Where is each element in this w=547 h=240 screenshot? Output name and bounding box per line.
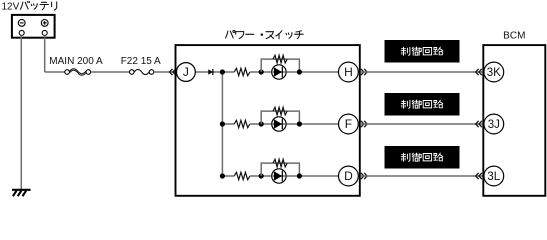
BCM box [483, 45, 545, 196]
junction dot [220, 173, 225, 178]
terminal H [339, 62, 359, 82]
terminal D [339, 166, 359, 186]
diode D2 (circled) [272, 65, 286, 79]
junction dot [220, 69, 225, 74]
resistor R4 (parallel) [273, 107, 287, 115]
svg-text:12V: 12V [2, 1, 20, 12]
resistor R1 [234, 68, 250, 75]
wire to BCM [361, 123, 484, 125]
resistor R5 [234, 172, 250, 179]
control circuit block 3 (制御回路) [385, 146, 460, 169]
svg-text:F: F [345, 117, 352, 131]
wire parallel branch [261, 59, 299, 72]
connector chevrons at BCM [476, 69, 482, 75]
control circuit block 1 (制御回路) [385, 40, 460, 63]
node junction dot [297, 121, 302, 126]
terminal F [339, 114, 359, 134]
wire battery negative to ground [20, 36, 22, 190]
node junction dot [259, 121, 264, 126]
fuse F22 15A [130, 69, 154, 74]
wire to BCM [361, 71, 484, 73]
fusible link MAIN 200A [65, 69, 91, 76]
connector chevrons out [361, 121, 367, 127]
svg-text:J: J [183, 65, 189, 79]
power switch box [176, 45, 360, 196]
ground [12, 190, 31, 196]
svg-text:H: H [344, 65, 353, 79]
label power switch (パワー・スイッチ) [226, 30, 304, 38]
diode D4 (circled) [272, 169, 286, 183]
battery 12V [12, 15, 55, 38]
svg-text:BCM: BCM [503, 30, 525, 41]
wire J to junction [195, 71, 234, 73]
wire through diode [272, 71, 339, 73]
node junction dot [259, 173, 264, 178]
diode D3 (circled) [272, 117, 286, 131]
terminal J [177, 63, 196, 82]
resistor R3 [234, 120, 250, 127]
connector chevrons out [361, 173, 367, 179]
wire branch to row F [222, 123, 234, 125]
wire parallel branch [261, 111, 299, 124]
terminal 3K [484, 62, 504, 82]
wire between fuses [91, 71, 130, 73]
svg-text:3J: 3J [488, 119, 500, 131]
diode D1 (inline) [208, 69, 213, 75]
junction dot [220, 121, 225, 126]
wire battery positive [45, 36, 65, 73]
node junction dot [297, 173, 302, 178]
svg-text:MAIN 200 A: MAIN 200 A [49, 56, 103, 67]
wire fuse to power switch connector [154, 71, 177, 73]
connector chevrons out [361, 69, 367, 75]
connector chevrons at J [170, 69, 176, 75]
terminal 3L [484, 166, 504, 186]
wire branch to row D [222, 175, 234, 177]
wire to BCM [361, 175, 484, 177]
svg-text:3L: 3L [487, 171, 500, 183]
wire through diode [272, 123, 339, 125]
connector chevrons at BCM [476, 121, 482, 127]
control circuit block 2 (制御回路) [385, 93, 460, 116]
wire through diode [272, 175, 339, 177]
wire [250, 123, 272, 125]
node junction dot [297, 69, 302, 74]
svg-text:D: D [344, 169, 353, 183]
wire parallel branch [261, 163, 299, 176]
connector chevrons at BCM [476, 173, 482, 179]
svg-text:3K: 3K [487, 67, 501, 79]
resistor R2 (parallel) [273, 55, 287, 63]
node junction dot [259, 69, 264, 74]
wire [250, 71, 272, 73]
label 12V battery [2, 1, 57, 12]
terminal 3J [484, 114, 504, 134]
node J vertical branch wire [221, 72, 223, 176]
svg-text:F22 15 A: F22 15 A [121, 56, 161, 67]
wire [250, 175, 272, 177]
resistor R6 (parallel) [273, 159, 287, 167]
